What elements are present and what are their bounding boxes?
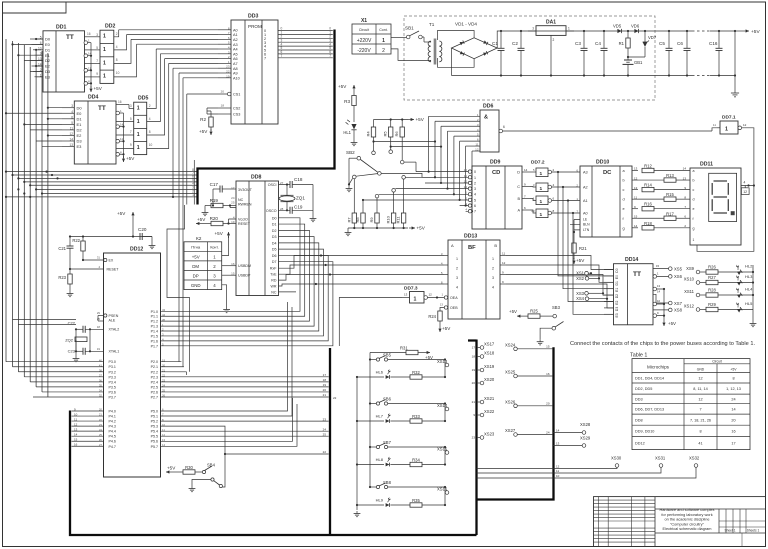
svg-text:P4.3: P4.3 xyxy=(109,425,116,429)
svg-text:P2.5: P2.5 xyxy=(151,385,158,389)
capacitor C1 xyxy=(492,30,505,77)
svg-text:1: 1 xyxy=(540,186,543,192)
svg-text:DD13: DD13 xyxy=(464,234,477,240)
svg-text:R16: R16 xyxy=(644,202,652,207)
resistor R20 xyxy=(196,216,236,226)
capacitor C17 xyxy=(210,182,236,203)
switch SB2 xyxy=(346,150,381,185)
bus wire numbers 1-8 xyxy=(192,168,194,197)
svg-text:R10: R10 xyxy=(386,215,391,223)
svg-text:13: 13 xyxy=(634,186,638,190)
svg-text:E3: E3 xyxy=(615,313,619,317)
svg-text:20: 20 xyxy=(731,418,735,422)
svg-text:P1.6: P1.6 xyxy=(151,339,158,343)
svg-text:8: 8 xyxy=(116,58,118,62)
svg-text:+5V: +5V xyxy=(94,86,103,91)
svg-text:B: B xyxy=(494,243,497,248)
title stamp box top-left xyxy=(3,2,67,13)
svg-text:20: 20 xyxy=(323,388,327,392)
svg-text:DD3: DD3 xyxy=(248,14,258,20)
svg-text:A1: A1 xyxy=(583,199,588,203)
svg-text:R35: R35 xyxy=(412,498,420,503)
svg-text:15: 15 xyxy=(74,438,78,442)
svg-text:Electrical schematic diagram: Electrical schematic diagram xyxy=(663,527,712,531)
svg-text:XS6: XS6 xyxy=(674,274,683,279)
svg-text:A0: A0 xyxy=(583,212,588,216)
svg-text:XS4: XS4 xyxy=(576,296,585,301)
IC DD10 xyxy=(576,160,632,238)
svg-text:DC: DC xyxy=(603,170,612,176)
resistor R26 xyxy=(706,265,736,275)
wire P4 to bus xyxy=(72,407,104,446)
svg-text:HL5: HL5 xyxy=(745,301,753,306)
svg-text:D2: D2 xyxy=(45,58,51,63)
wire DD10 control pins xyxy=(570,220,580,244)
svg-text:D1: D1 xyxy=(272,223,277,227)
wire RWREN xyxy=(229,204,236,207)
svg-text:19: 19 xyxy=(97,347,101,351)
svg-text:a: a xyxy=(693,169,695,173)
resistor R6 xyxy=(394,120,404,161)
svg-text:WR: WR xyxy=(271,284,277,288)
resistor R32 xyxy=(410,370,445,379)
svg-text:5: 5 xyxy=(130,117,132,121)
svg-text:R8: R8 xyxy=(355,217,360,223)
svg-text:13: 13 xyxy=(556,442,560,446)
svg-text:SB1: SB1 xyxy=(405,26,414,31)
svg-text:3: 3 xyxy=(456,276,458,280)
svg-text:c: c xyxy=(623,188,625,192)
socket XS26 xyxy=(505,399,552,407)
svg-text:3: 3 xyxy=(130,104,132,108)
wire DD7.2 to DD10 xyxy=(552,171,580,214)
svg-text:11: 11 xyxy=(713,123,716,127)
svg-text:11: 11 xyxy=(502,252,505,256)
test point R6 xyxy=(400,160,416,171)
connector X1 xyxy=(352,18,391,54)
socket XS9 xyxy=(686,266,706,274)
svg-text:+5V: +5V xyxy=(126,156,135,161)
IC DD12 xyxy=(97,247,166,478)
svg-text:DD1, DD4, DD14: DD1, DD4, DD14 xyxy=(635,376,664,380)
svg-text:Cont.: Cont. xyxy=(379,28,388,32)
wire OSCI OSCO xyxy=(279,183,291,211)
svg-text:R19: R19 xyxy=(210,198,219,203)
svg-text:R14: R14 xyxy=(644,183,652,188)
svg-text:7: 7 xyxy=(699,407,701,411)
svg-text:17: 17 xyxy=(472,346,476,350)
wire RxF to DD13 xyxy=(279,254,445,268)
resistor R28 xyxy=(706,288,736,298)
svg-text:XS12: XS12 xyxy=(684,304,695,309)
dashed power-supply outline xyxy=(404,16,655,100)
resistor R24 xyxy=(428,308,444,327)
svg-text:P4.6: P4.6 xyxy=(109,440,116,444)
svg-text:C16: C16 xyxy=(709,41,718,46)
svg-text:XS22: XS22 xyxy=(484,409,495,414)
svg-text:44: 44 xyxy=(162,313,166,317)
svg-text:19: 19 xyxy=(323,383,327,387)
resistor R29 xyxy=(706,302,736,312)
svg-text:A2: A2 xyxy=(233,38,238,42)
svg-text:11: 11 xyxy=(70,126,74,130)
wire PSEN stub xyxy=(98,316,104,322)
wire nest vertical extra xyxy=(193,160,195,205)
LED HL3 xyxy=(734,274,753,285)
svg-text:Circuit: Circuit xyxy=(359,28,369,32)
wire WR to DD13 xyxy=(279,283,445,286)
resistor R35 xyxy=(410,498,445,507)
svg-text:3: 3 xyxy=(532,27,534,31)
socket XS23 xyxy=(472,431,495,439)
svg-text:XTAL1: XTAL1 xyxy=(109,350,120,354)
svg-text:+5V: +5V xyxy=(192,254,200,259)
svg-text:E1: E1 xyxy=(615,288,619,292)
svg-text:P3.5: P3.5 xyxy=(109,385,116,389)
wire DD7.1 to DD11 xyxy=(741,128,755,187)
resistor R11 xyxy=(396,176,406,229)
svg-text:TT: TT xyxy=(66,34,74,41)
svg-text:C21: C21 xyxy=(58,246,66,251)
wire DD11 pin4 xyxy=(741,181,749,195)
svg-text:12: 12 xyxy=(743,190,747,194)
wire +5V top rail xyxy=(497,31,735,48)
svg-text:A7: A7 xyxy=(233,62,238,66)
svg-text:10: 10 xyxy=(149,143,153,147)
svg-text:R18: R18 xyxy=(644,221,652,226)
svg-text:20: 20 xyxy=(472,381,476,385)
svg-text:XS17: XS17 xyxy=(484,341,495,346)
capacitor C4 xyxy=(595,30,608,77)
wire NC stub xyxy=(279,291,297,293)
title block xyxy=(594,497,766,547)
svg-text:16: 16 xyxy=(74,443,78,447)
IC DD1 xyxy=(30,25,85,92)
wire CS2 CS3 xyxy=(207,108,218,114)
svg-text:13: 13 xyxy=(634,167,638,171)
svg-text:13: 13 xyxy=(74,428,78,432)
socket XS32 xyxy=(477,456,700,479)
svg-text:XS31: XS31 xyxy=(655,456,666,461)
capacitor C22 xyxy=(68,321,104,333)
capacitor C3 xyxy=(575,30,588,77)
svg-text:R34: R34 xyxy=(412,457,420,462)
power +5V K2 row1 xyxy=(215,231,231,256)
wire R4-R6 top rail xyxy=(374,117,425,122)
socket XS31 xyxy=(477,456,666,474)
svg-text:13: 13 xyxy=(440,303,444,307)
svg-text:P5.0: P5.0 xyxy=(151,410,158,414)
svg-text:15: 15 xyxy=(546,345,550,349)
socket XS5 xyxy=(669,266,683,271)
svg-text:+5V: +5V xyxy=(668,321,676,326)
svg-text:14: 14 xyxy=(634,224,638,228)
battery GB1 xyxy=(623,57,644,77)
svg-text:DD5: DD5 xyxy=(138,96,148,102)
svg-text:C23: C23 xyxy=(68,349,76,354)
wire P2.3-P2.7 to bus xyxy=(161,373,329,397)
svg-text:E2: E2 xyxy=(45,64,51,69)
thick bus box XS17-27 xyxy=(468,340,554,536)
svg-text:R25: R25 xyxy=(530,309,538,314)
svg-text:5: 5 xyxy=(474,198,476,202)
svg-text:R33: R33 xyxy=(412,414,420,419)
svg-text:12: 12 xyxy=(464,179,468,183)
svg-text:29: 29 xyxy=(97,311,101,315)
svg-text:SB5: SB5 xyxy=(383,353,392,358)
svg-text:R4: R4 xyxy=(366,131,371,137)
IC DD2 xyxy=(96,24,119,84)
svg-text:XS27: XS27 xyxy=(505,428,516,433)
svg-text:-220V: -220V xyxy=(357,48,371,54)
svg-text:1: 1 xyxy=(103,47,106,53)
svg-text:D3: D3 xyxy=(272,235,277,239)
resistor R21 xyxy=(572,243,588,259)
svg-text:D6: D6 xyxy=(272,254,277,258)
svg-text:D0: D0 xyxy=(272,216,277,220)
svg-text:E2: E2 xyxy=(77,133,83,138)
svg-text:+5V: +5V xyxy=(730,368,737,372)
svg-text:P3.0: P3.0 xyxy=(109,360,116,364)
svg-text:E3: E3 xyxy=(45,74,51,79)
svg-text:VccIO: VccIO xyxy=(238,217,248,221)
svg-text:8, 11, 14: 8, 11, 14 xyxy=(693,387,708,391)
wire DD2 outputs to DD3 xyxy=(114,30,137,77)
svg-text:BF: BF xyxy=(468,245,476,251)
svg-text:PSEN: PSEN xyxy=(109,314,119,318)
svg-text:HL1: HL1 xyxy=(343,130,351,135)
svg-text:XS21: XS21 xyxy=(484,396,495,401)
LED HL4 xyxy=(734,287,753,298)
socket XS11 xyxy=(684,289,706,297)
svg-text:23: 23 xyxy=(226,65,230,69)
switch SB6 xyxy=(370,397,445,406)
socket XS30 xyxy=(477,456,622,469)
ground SB5-8 rail xyxy=(354,510,361,517)
junction dots SB5 rails xyxy=(356,358,371,378)
wire R4 tap to DD6 vertical xyxy=(372,140,436,154)
svg-text:R5: R5 xyxy=(383,131,388,137)
svg-text:XS26: XS26 xyxy=(505,399,516,404)
svg-text:C2: C2 xyxy=(512,41,518,46)
svg-text:NC: NC xyxy=(238,198,244,202)
svg-text:14: 14 xyxy=(524,168,528,172)
svg-text:A0: A0 xyxy=(233,28,238,32)
wire verticals to DD14 xyxy=(558,172,614,314)
svg-text:DD9: DD9 xyxy=(490,160,500,166)
svg-text:18: 18 xyxy=(323,378,327,382)
svg-text:25: 25 xyxy=(231,201,235,205)
socket XS3 xyxy=(576,291,604,296)
socket XS25 xyxy=(505,370,552,378)
svg-text:12: 12 xyxy=(743,123,747,127)
socket XS8 xyxy=(669,308,683,313)
svg-text:7, 18, 21, 26: 7, 18, 21, 26 xyxy=(690,418,711,422)
svg-text:HL7: HL7 xyxy=(376,414,384,419)
ground R23 xyxy=(67,291,74,297)
svg-text:14: 14 xyxy=(731,407,735,411)
svg-text:DD6: DD6 xyxy=(483,104,493,110)
svg-text:C4: C4 xyxy=(595,41,601,46)
svg-text:XS23: XS23 xyxy=(484,431,495,436)
svg-text:E0: E0 xyxy=(615,275,619,279)
svg-text:P5.6: P5.6 xyxy=(151,440,158,444)
svg-text:12: 12 xyxy=(698,397,702,401)
svg-text:CS3: CS3 xyxy=(233,113,240,117)
svg-text:ZQ1: ZQ1 xyxy=(296,196,305,201)
svg-text:SB8: SB8 xyxy=(383,480,392,485)
svg-text:Пгна: Пгна xyxy=(191,245,201,250)
svg-text:A10: A10 xyxy=(233,76,240,80)
svg-text:12: 12 xyxy=(74,423,78,427)
svg-text:LTN: LTN xyxy=(583,228,590,232)
socket XS2 xyxy=(576,276,600,281)
wire +5V reset rail xyxy=(69,235,152,237)
capacitor C23 xyxy=(68,348,104,355)
svg-text:D: D xyxy=(517,171,520,175)
svg-text:P5.7: P5.7 xyxy=(151,445,158,449)
svg-text:DD3: DD3 xyxy=(635,397,643,401)
svg-text:P5.3: P5.3 xyxy=(151,425,158,429)
svg-text:14: 14 xyxy=(556,429,560,433)
svg-text:8: 8 xyxy=(732,376,734,380)
svg-text:25: 25 xyxy=(323,432,327,436)
resistor R9 xyxy=(369,194,379,228)
svg-text:P5.4: P5.4 xyxy=(151,430,158,434)
svg-text:DD14: DD14 xyxy=(625,257,638,263)
svg-text:XS11: XS11 xyxy=(684,289,695,294)
svg-text:EX: EX xyxy=(109,259,114,263)
socket XS21 xyxy=(472,396,495,404)
svg-text:9: 9 xyxy=(96,72,98,76)
svg-text:Table 1: Table 1 xyxy=(630,352,647,358)
svg-text:R30: R30 xyxy=(185,465,193,470)
svg-text:DD2: DD2 xyxy=(105,24,115,30)
svg-text:DD6, DD7, DD13: DD6, DD7, DD13 xyxy=(635,407,664,411)
svg-text:C3: C3 xyxy=(575,41,581,46)
resistor R25 xyxy=(523,309,553,319)
svg-text:24: 24 xyxy=(546,430,550,434)
wire SB2 to DD9 xyxy=(381,173,435,177)
svg-text:X1: X1 xyxy=(361,18,367,24)
socket XS13 xyxy=(437,358,449,378)
svg-text:RD: RD xyxy=(271,279,277,283)
svg-text:D2: D2 xyxy=(615,294,619,298)
svg-text:DM: DM xyxy=(192,264,199,269)
svg-text:C5: C5 xyxy=(659,41,665,46)
svg-text:P2.3: P2.3 xyxy=(151,375,158,379)
svg-text:OSCO: OSCO xyxy=(266,209,277,213)
svg-text:8: 8 xyxy=(149,130,151,134)
svg-text:VD5: VD5 xyxy=(613,24,622,29)
svg-text:1: 1 xyxy=(414,297,417,303)
svg-text:Sheets 1: Sheets 1 xyxy=(747,529,760,533)
svg-text:SB7: SB7 xyxy=(383,440,392,445)
svg-text:Microchips: Microchips xyxy=(647,365,670,370)
svg-text:0: 0 xyxy=(474,170,476,174)
thick bus line upper xyxy=(198,30,335,205)
svg-text:13: 13 xyxy=(683,176,687,180)
svg-text:17: 17 xyxy=(323,373,327,377)
svg-text:3: 3 xyxy=(96,33,98,37)
socket XS7 xyxy=(669,301,683,306)
LED HL6 xyxy=(357,370,410,379)
resistor R16 xyxy=(642,202,690,211)
IC DD6 xyxy=(429,104,505,153)
svg-text:BLN: BLN xyxy=(583,223,590,227)
ground power rail xyxy=(731,90,739,97)
wire VccIO xyxy=(229,219,237,224)
svg-text:+5V: +5V xyxy=(576,258,585,263)
svg-text:GB1: GB1 xyxy=(634,60,643,65)
svg-text:RESET: RESET xyxy=(238,222,251,226)
svg-text:+5V: +5V xyxy=(751,29,760,35)
svg-text:TT: TT xyxy=(633,271,641,278)
power +5V DD12 xyxy=(117,211,135,237)
svg-text:2: 2 xyxy=(116,32,118,36)
svg-text:22: 22 xyxy=(226,70,230,74)
svg-text:C: C xyxy=(517,185,520,189)
svg-text:DD2, DD5: DD2, DD5 xyxy=(635,387,652,391)
svg-text:+5V: +5V xyxy=(117,211,126,216)
wire RD to DD13 xyxy=(279,273,445,280)
ground SB4 xyxy=(189,480,211,492)
svg-text:+5V: +5V xyxy=(215,231,224,236)
svg-text:1: 1 xyxy=(540,199,543,205)
wire P5.3 to SB4 net xyxy=(224,450,329,455)
svg-text:18: 18 xyxy=(221,104,225,108)
svg-text:SB6: SB6 xyxy=(383,397,392,402)
svg-text:6: 6 xyxy=(474,204,476,208)
svg-text:18: 18 xyxy=(97,325,101,329)
svg-text:2: 2 xyxy=(382,48,385,54)
svg-text:12: 12 xyxy=(634,176,638,180)
wire R5 tap to DD6 vertical xyxy=(389,146,442,154)
svg-text:R27: R27 xyxy=(708,275,716,280)
svg-text:R21: R21 xyxy=(579,246,587,251)
svg-text:P2.7: P2.7 xyxy=(151,395,158,399)
svg-text:g: g xyxy=(623,226,625,230)
ground XTAL xyxy=(73,340,80,362)
svg-text:12: 12 xyxy=(475,148,479,152)
svg-text:P3.1: P3.1 xyxy=(109,365,116,369)
svg-text:16: 16 xyxy=(546,372,550,376)
svg-text:+5V: +5V xyxy=(417,226,426,231)
svg-text:1: 1 xyxy=(137,132,140,138)
svg-text:HL4: HL4 xyxy=(745,287,753,292)
svg-text:E1: E1 xyxy=(77,122,83,127)
svg-text:13: 13 xyxy=(404,293,408,297)
svg-text:1: 1 xyxy=(492,257,494,261)
socket XS22 xyxy=(473,409,495,417)
svg-text:R20: R20 xyxy=(210,216,219,221)
svg-text:24: 24 xyxy=(323,427,327,431)
wire mid horizontal bus xyxy=(6,172,197,197)
IC DD4 xyxy=(62,95,116,164)
svg-text:14: 14 xyxy=(74,433,78,437)
switch SB1 xyxy=(391,26,429,43)
svg-text:GND: GND xyxy=(191,283,201,288)
DD10 segment outputs xyxy=(623,167,639,231)
svg-text:+5V: +5V xyxy=(509,309,517,314)
svg-text:b: b xyxy=(623,179,625,183)
svg-text:1: 1 xyxy=(474,176,476,180)
svg-text:SB2: SB2 xyxy=(346,150,355,155)
power +5V arrow right xyxy=(746,29,761,35)
svg-text:USBDM: USBDM xyxy=(238,264,251,268)
svg-text:CS2: CS2 xyxy=(233,107,240,111)
svg-text:2: 2 xyxy=(492,267,494,271)
